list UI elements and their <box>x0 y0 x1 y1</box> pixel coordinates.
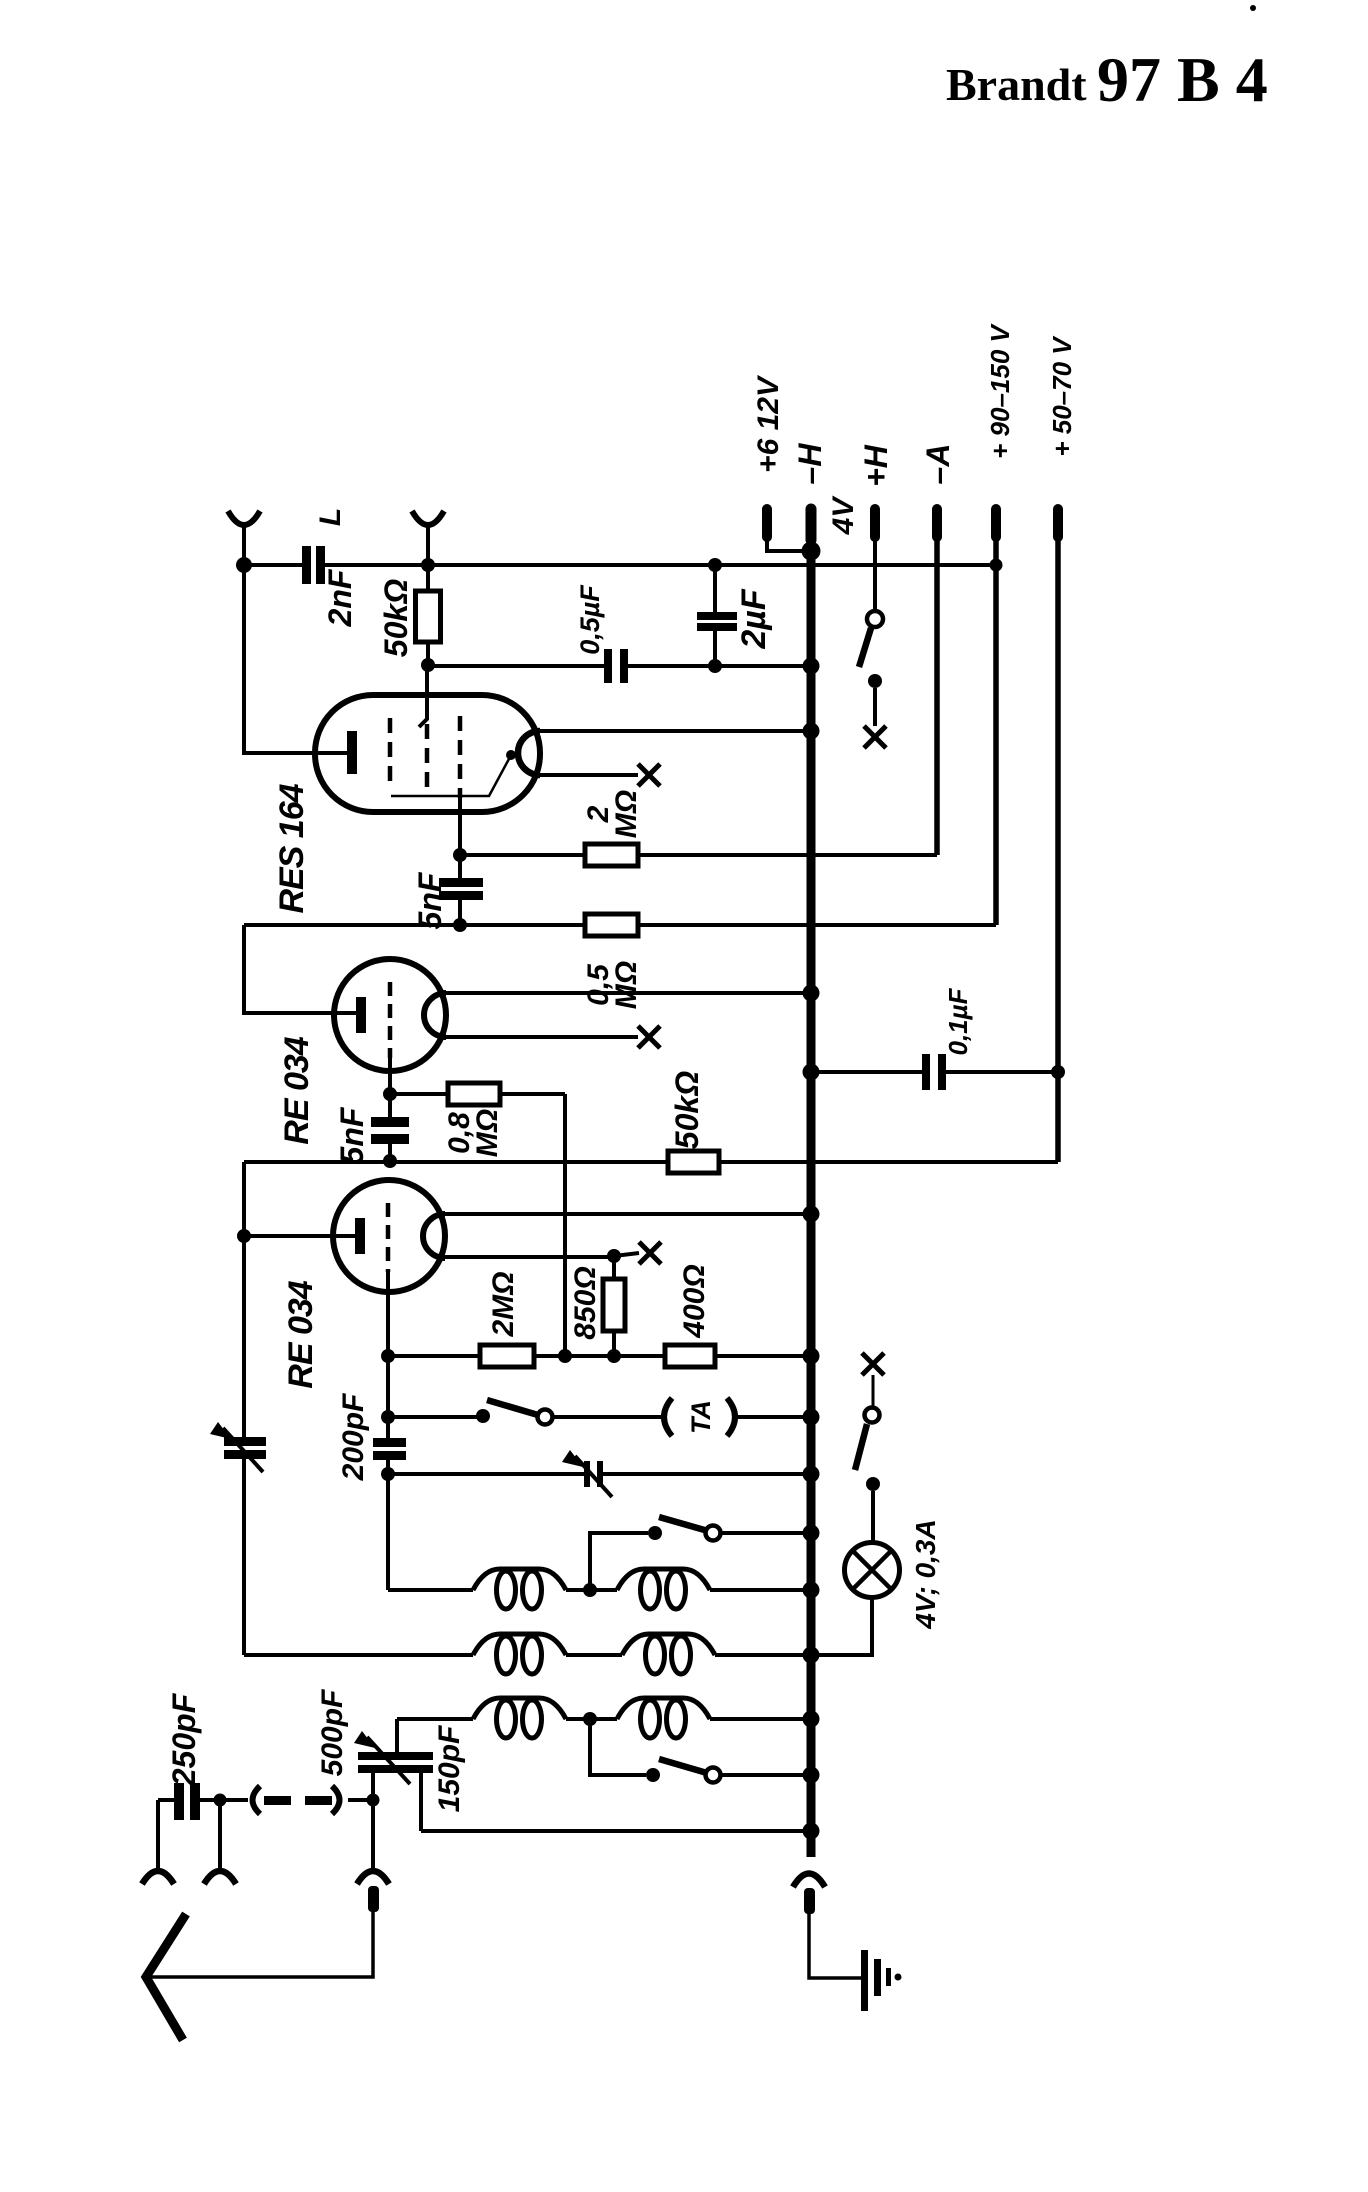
wire: wave-switch row y1533 <box>590 1533 811 1590</box>
value 0,8 MOhm <box>443 1109 504 1157</box>
RES164 internal strap <box>391 750 516 796</box>
node: +90-150V line junction <box>990 559 1003 572</box>
antenna socket 1 <box>142 1871 174 1884</box>
speck <box>1250 5 1256 11</box>
resistor 0,5MOhm <box>585 914 638 936</box>
inductor L1b <box>617 1569 710 1609</box>
switch (waveband 2) pivot circle <box>706 1768 721 1783</box>
RE034 det grid lead down <box>386 1272 390 1438</box>
svg-text:RE 034: RE 034 <box>282 1280 320 1388</box>
capacitor 500pF (tuning) <box>354 1731 433 1784</box>
node: bus y1474 <box>803 1466 820 1483</box>
node: bus y1655 <box>803 1647 820 1664</box>
speaker terminal L (right) <box>412 511 444 565</box>
wire: RE034 AF anode to bus <box>446 991 811 995</box>
variable capacitor (tuning, left rail) <box>210 1422 266 1472</box>
RE034 AF grid (dashed) <box>388 982 393 1058</box>
svg-text:–A: –A <box>920 444 956 485</box>
svg-text:L: L <box>314 508 347 526</box>
resistor 2MOhm (det grid leak) <box>480 1345 534 1367</box>
inductor L3b <box>617 1698 710 1738</box>
wire: 500pF top to antenna coil <box>395 1719 399 1752</box>
svg-text:Brandt: Brandt <box>946 59 1087 110</box>
wire: left rail segment 2 <box>244 925 356 1013</box>
wire: grid column below 200pF <box>386 1460 390 1590</box>
inductor L2a <box>473 1634 566 1674</box>
wire: -A lead down to 2M row <box>934 537 940 855</box>
node: bus y1775 <box>803 1767 820 1784</box>
switch (heater +H) blade <box>859 628 871 667</box>
RES164 grid (dashed) <box>388 718 393 790</box>
node: 850 bottom <box>607 1349 621 1363</box>
node: bus y1590 <box>803 1582 820 1599</box>
terminal -A <box>932 509 942 537</box>
wire: cathode bias row y1356 <box>388 1354 811 1358</box>
coil row 3 (antenna coils) wire <box>397 1717 811 1721</box>
bus plug pin <box>804 1888 815 1914</box>
antenna symbol <box>146 1914 186 2040</box>
X terminal (+H) <box>864 726 886 748</box>
node: bus y666 <box>803 658 820 675</box>
switch (TA) contact dot <box>476 1409 490 1423</box>
terminal +6 12V <box>767 509 802 551</box>
svg-text:2nF: 2nF <box>322 568 358 627</box>
RES164 cathode bar <box>347 731 357 774</box>
svg-text:5nF: 5nF <box>412 871 448 929</box>
main bus -H <box>807 509 816 1857</box>
terminal +90-150V <box>991 509 1001 537</box>
wire: earth lead <box>809 1912 861 1978</box>
svg-text:250pF: 250pF <box>166 1692 202 1787</box>
svg-text:200pF: 200pF <box>337 1393 370 1481</box>
wire: RES164 grid lead down <box>458 798 462 855</box>
tube RE034 (AF) envelope <box>334 959 446 1071</box>
inductor L3a <box>473 1698 566 1738</box>
svg-text:97 B 4: 97 B 4 <box>1097 44 1268 115</box>
speaker terminal L (left) <box>228 511 260 565</box>
terminal +H <box>870 509 880 537</box>
wire: left rail below tuning cap <box>242 1459 246 1655</box>
earth ground <box>861 1950 902 2011</box>
node: bus y731 <box>803 723 820 740</box>
svg-text:2µF: 2µF <box>735 588 773 649</box>
antenna plug pin <box>368 1886 379 1912</box>
wire: +90-150V lead down to 0,5M row <box>993 537 999 925</box>
node: bus top elbow junction <box>802 542 821 561</box>
svg-text:150pF: 150pF <box>433 1725 466 1812</box>
wire: RES164 grid-cap lead <box>540 773 638 777</box>
node: 850 top junction <box>607 1249 621 1263</box>
antenna socket 3 <box>357 1871 389 1884</box>
node: 50k bottom junction <box>421 658 435 672</box>
node: elbow y1356 <box>558 1349 572 1363</box>
resistor 850Ohm <box>603 1256 625 1356</box>
svg-text:4V: 4V <box>827 495 860 536</box>
wire: 500pF left stem <box>371 1773 375 1800</box>
capacitor 2uF <box>697 565 737 666</box>
wire: det grid-cap lead <box>445 1255 614 1259</box>
capacitor 2nF <box>302 546 325 584</box>
wire: 0,8M elbow down <box>563 1094 567 1356</box>
RES164 grid 2 (dashed) <box>458 716 463 798</box>
node: 50k top junction <box>421 558 435 572</box>
svg-text:4V; 0,3A: 4V; 0,3A <box>910 1519 941 1629</box>
resistor 0,8MOhm (grid leak) <box>390 1083 565 1105</box>
RES164 anode feed <box>419 665 427 793</box>
node: bus y1719 <box>803 1711 820 1728</box>
svg-text:MΩ: MΩ <box>610 790 643 838</box>
node: grid column y1417 <box>381 1410 395 1424</box>
node: bus y1533 <box>803 1525 820 1542</box>
wire: left rail segment 3 <box>242 1162 246 1437</box>
RE034 det cathode bar <box>355 1218 365 1254</box>
svg-text:50kΩ: 50kΩ <box>669 1071 705 1149</box>
X terminal (det) <box>639 1242 661 1264</box>
switch (dial lamp) pivot circle <box>865 1408 880 1423</box>
node: AF grid junction <box>383 1087 397 1101</box>
wire: 0,1uF row y1072 <box>811 1070 1058 1074</box>
svg-text:–H: –H <box>792 443 828 485</box>
svg-text:+6 12V: +6 12V <box>752 374 785 473</box>
wire: top rail from speakers to +90-150V line <box>244 563 996 567</box>
svg-text:+ 50–70 V: + 50–70 V <box>1047 335 1077 457</box>
tube RES164 envelope <box>315 695 540 812</box>
X terminal (dial lamp feed) <box>862 1353 884 1375</box>
switch (dial lamp) contact dot <box>866 1477 880 1491</box>
switch (heater +H) open circle <box>867 611 883 627</box>
X terminal (RES164 grid cap) <box>638 764 660 786</box>
switch (waveband 1) contact dot <box>648 1526 662 1540</box>
svg-text:500pF: 500pF <box>316 1689 349 1776</box>
RES164 plate arc <box>518 731 540 775</box>
wire: to X <box>614 1253 639 1256</box>
RE034 det plate arc <box>423 1214 445 1258</box>
svg-text:RE 034: RE 034 <box>278 1036 316 1144</box>
node: bus y1831 <box>803 1823 820 1840</box>
resistor 2MOhm (RES164 grid leak) <box>585 844 638 866</box>
svg-text:400Ω: 400Ω <box>678 1264 711 1338</box>
switch (waveband 1) blade <box>659 1517 708 1531</box>
node: y1474 <box>381 1467 395 1481</box>
wire: screen row y666 <box>428 664 811 668</box>
node: bus y993 <box>803 985 820 1002</box>
svg-text:0,5µF: 0,5µF <box>575 584 605 655</box>
RE034 AF plate arc <box>424 993 446 1037</box>
wire: lamp bottom lead <box>811 1598 872 1655</box>
wire: antenna terminal 2 stem <box>218 1800 222 1870</box>
node: bus y1072 <box>803 1064 820 1081</box>
wire: TA row y1417 <box>388 1415 811 1419</box>
coil row 2 wire <box>244 1653 811 1657</box>
wire: socket3 stem <box>371 1806 375 1870</box>
node: grid column y1356 <box>381 1349 395 1363</box>
wire: 150pF return row y1831 <box>421 1829 811 1833</box>
RE034 AF grid lead <box>388 1058 392 1094</box>
wire: +H to X <box>873 688 877 726</box>
wire: detector cathode lead <box>244 1234 355 1238</box>
capacitor 250pF <box>158 1783 248 1820</box>
switch (TA) blade <box>487 1400 538 1415</box>
wire: row y855 to -A <box>460 853 937 857</box>
node: 2uF bottom junction <box>708 659 722 673</box>
switch (waveband 2) contact dot <box>646 1768 660 1782</box>
node: detector cathode junction <box>237 1229 251 1243</box>
value 0,5 MOhm <box>582 961 643 1009</box>
node: bus y1356 <box>803 1348 820 1365</box>
capacitor 200pF <box>373 1438 406 1460</box>
svg-text:RES 164: RES 164 <box>273 783 311 913</box>
wire: RES164 anode to bus <box>540 729 811 733</box>
node: link junction <box>214 1794 227 1807</box>
svg-text:850Ω: 850Ω <box>569 1266 602 1339</box>
node: 5nF bottom <box>383 1154 397 1168</box>
node: speaker-left junction <box>236 557 252 573</box>
wire: lamp switch lead <box>872 1375 875 1407</box>
terminal -H (bus head) <box>806 509 817 540</box>
resistor 400Ohm <box>665 1345 715 1367</box>
switch (dial lamp) blade <box>855 1424 867 1470</box>
node: grid condenser bottom <box>453 918 467 932</box>
svg-text:0,1µF: 0,1µF <box>943 987 973 1055</box>
node: 500pF junction <box>367 1794 380 1807</box>
svg-text:+ 90–150 V: + 90–150 V <box>985 322 1015 458</box>
lamp 4V 0,3A <box>845 1543 900 1598</box>
variable capacitor (series, padding) <box>388 1450 811 1497</box>
capacitor 5nF (RES164 grid) <box>439 855 483 925</box>
resistor 50kOhm (grid return) <box>668 1151 719 1173</box>
node: grid condenser top <box>453 848 467 862</box>
wire: antenna lead <box>146 1912 373 1977</box>
RE034 det grid (dashed) <box>386 1203 391 1272</box>
node: 2uF top junction <box>708 558 722 572</box>
X terminal (RE034 AF) <box>638 1026 660 1048</box>
wire: RE034 AF grid-cap lead <box>446 1035 638 1039</box>
inductor L2b <box>622 1634 715 1674</box>
bus socket <box>793 1874 825 1888</box>
wire: wave-switch row y1775 <box>590 1719 811 1775</box>
node: coil row1 centre tap <box>583 1583 597 1597</box>
wire: RE034 det anode to bus <box>445 1212 811 1216</box>
node: bus y1417 <box>803 1409 820 1426</box>
inductor L1a <box>473 1569 566 1609</box>
wire: lamp top lead <box>871 1491 875 1543</box>
resistor 50kOhm (RES164 anode) <box>416 565 441 665</box>
node: +50-70V line y1072 <box>1051 1065 1065 1079</box>
svg-text:+H: +H <box>858 444 894 487</box>
coil row 1 (anode coils) wire <box>388 1588 811 1592</box>
node: bus y1214 <box>803 1206 820 1223</box>
capacitor 0,5uF <box>604 649 628 683</box>
switch (waveband 1) pivot circle <box>706 1526 721 1541</box>
jack TA arcs <box>664 1398 735 1436</box>
switch (TA) pivot circle <box>538 1410 553 1425</box>
switch (heater +H) contact dot <box>868 674 882 688</box>
wire: antenna terminal 1 stem <box>156 1800 160 1870</box>
capacitor 5nF (AF grid) <box>371 1094 409 1161</box>
svg-text:MΩ: MΩ <box>610 961 643 1009</box>
svg-text:2MΩ: 2MΩ <box>487 1271 520 1337</box>
wire: +50-70V lead down to 50k row <box>1055 537 1061 1162</box>
svg-text:TA: TA <box>686 1400 716 1434</box>
value 2 MOhm <box>582 790 643 838</box>
node: coil row3 centre tap <box>583 1712 597 1726</box>
switch (waveband 2) blade <box>659 1759 707 1773</box>
RE034 AF cathode bar <box>356 997 366 1033</box>
wire: row y925 to +90-150V <box>244 923 996 927</box>
terminal +50-70V <box>1053 509 1063 537</box>
svg-text:50kΩ: 50kΩ <box>378 579 414 657</box>
wire: 150pF return stem <box>419 1773 423 1831</box>
wire: left rail to RES164 cathode <box>244 565 347 753</box>
tube RE034 (detector) envelope <box>333 1180 445 1292</box>
plug link <box>253 1786 368 1814</box>
svg-text:5nF: 5nF <box>334 1106 370 1164</box>
wire: row y1162 to +50-70V <box>244 1160 1058 1164</box>
svg-text:MΩ: MΩ <box>471 1109 504 1157</box>
capacitor 0,1uF <box>922 1054 946 1090</box>
wire: +H lead <box>873 537 877 611</box>
antenna socket 2 <box>204 1871 236 1884</box>
